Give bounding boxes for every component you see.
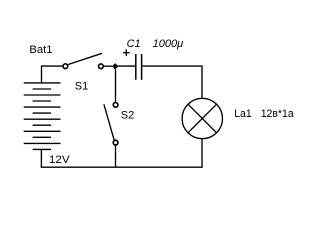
wire S2 to bottom rail [115,145,117,167]
svg-text:12в*1a: 12в*1a [261,108,295,120]
svg-text:La1: La1 [234,108,252,120]
wire C1 to lamp top [142,66,202,98]
lamp La1 [182,98,222,138]
svg-text:12V: 12V [49,154,70,166]
wire node A to C1 [118,65,135,67]
wire node A to S2 [115,69,117,102]
svg-text:S1: S1 [75,81,88,93]
node A junction [112,63,118,69]
wire lamp bottom to rail [201,139,203,168]
polarity plus sign [123,49,130,56]
svg-text:Bat1: Bat1 [29,44,52,56]
wire battery negative to rail [40,149,42,167]
bottom rail wire [41,166,203,168]
capacitor C1 [136,54,142,80]
svg-text:C1: C1 [127,38,141,50]
wire battery positive to S1 [42,66,63,83]
battery Bat1 [24,83,61,149]
svg-text:1000μ: 1000μ [153,38,184,50]
switch S2 [104,103,118,145]
wire S1 to node A [104,65,112,67]
switch S1 [63,53,103,68]
svg-text:S2: S2 [121,110,134,122]
